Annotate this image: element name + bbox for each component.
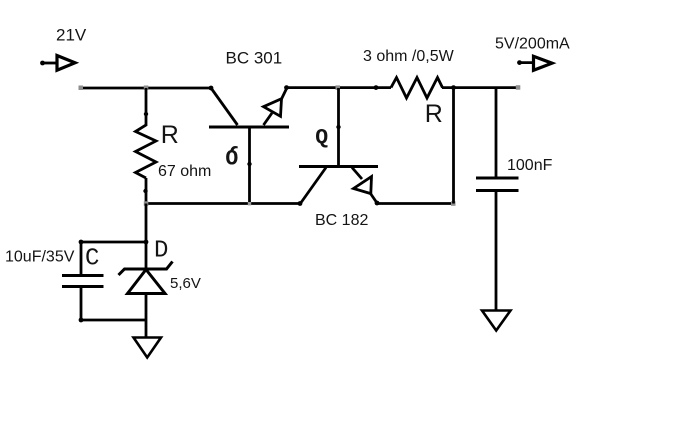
transistor U1 BC301 base wire down xyxy=(248,128,251,204)
transistor Q2 BC182 collector diagonal xyxy=(300,168,326,205)
capacitor C bottom plate xyxy=(62,285,104,288)
svg-text:21V: 21V xyxy=(56,26,87,45)
node dot on Q2 base wire xyxy=(336,125,340,129)
capacitor C upper lead xyxy=(80,242,83,275)
node C top dot xyxy=(79,240,84,245)
transistor U1 BC301 emitter upper segment xyxy=(281,88,287,100)
node Q2 top junction (gray handle) xyxy=(336,85,341,90)
node output end (gray handle) xyxy=(516,85,521,90)
zener D lower lead xyxy=(145,293,148,337)
capacitor 100nF top plate xyxy=(476,177,519,180)
node bottom-left junction (gray handle) xyxy=(144,201,149,206)
capacitor C lower lead xyxy=(80,287,83,320)
svg-text:R: R xyxy=(425,100,443,128)
node dot before resistor xyxy=(374,85,379,90)
svg-text:BC 301: BC 301 xyxy=(226,48,283,67)
wire bottom rail right xyxy=(377,202,454,205)
resistor 3 ohm (horizontal zigzag) xyxy=(391,78,443,99)
wire Q2 base vertical xyxy=(337,88,340,166)
transistor U1 BC301 emitter arrow xyxy=(264,99,282,117)
svg-text:100nF: 100nF xyxy=(507,157,553,174)
node bottom-right corner (gray handle) xyxy=(451,201,456,206)
node C bottom dot xyxy=(79,318,84,323)
svg-text:D: D xyxy=(154,238,168,265)
zener D cathode bar xyxy=(119,262,173,276)
node dot on base wire xyxy=(247,162,251,166)
transistor U1 BC301 emitter lower segment xyxy=(264,113,273,125)
ground right xyxy=(482,311,511,331)
node collector rail end dot xyxy=(209,86,214,91)
transistor U1 BC301 base bar xyxy=(209,126,289,129)
transistor Q2 BC182 emitter upper segment xyxy=(352,168,362,180)
wire output vertical xyxy=(452,88,455,204)
wire zener top vertical xyxy=(145,204,148,270)
wire R bottom xyxy=(145,178,148,204)
node emitter foot dot xyxy=(375,201,380,206)
wire R top xyxy=(145,88,148,126)
wire top rail right xyxy=(442,86,519,89)
node top rail / R junction (gray handle) xyxy=(144,86,149,91)
transistor Q2 BC182 base bar xyxy=(299,165,378,168)
wire top rail left xyxy=(81,87,211,90)
svg-text:BC 182: BC 182 xyxy=(315,212,368,229)
output arrow xyxy=(517,56,552,70)
capacitor 100nF lower lead xyxy=(495,191,498,310)
wire 100nF top lead xyxy=(495,88,498,177)
capacitor C top plate xyxy=(62,274,104,277)
node base-rail junction (gray pixel) xyxy=(248,202,251,205)
wire C top branch xyxy=(81,241,146,244)
zener D triangle xyxy=(128,270,166,294)
svg-text:5V/200mA: 5V/200mA xyxy=(495,35,570,52)
svg-text:C: C xyxy=(85,245,99,272)
capacitor 100nF bottom plate xyxy=(476,189,519,192)
svg-text:Q: Q xyxy=(225,144,238,168)
wire C bottom branch xyxy=(81,319,146,322)
transistor U1 BC301 collector diagonal xyxy=(211,88,238,125)
svg-text:10uF/35V: 10uF/35V xyxy=(5,249,75,266)
ground left xyxy=(134,338,162,358)
svg-text:67 ohm: 67 ohm xyxy=(158,163,211,180)
input arrow xyxy=(40,56,75,71)
svg-text:3 ohm /0,5W: 3 ohm /0,5W xyxy=(363,48,455,65)
node input end (gray handle) xyxy=(79,86,84,91)
node output junction dot xyxy=(451,85,456,90)
resistor R 67 ohm (vertical zigzag) xyxy=(136,125,157,178)
svg-text:Q: Q xyxy=(315,126,328,150)
svg-text:5,6V: 5,6V xyxy=(170,275,201,292)
transistor Q2 BC182 emitter arrow xyxy=(354,177,372,194)
wire top rail middle xyxy=(287,86,391,89)
transistor Q2 BC182 emitter lower segment xyxy=(371,194,378,204)
node emitter top dot xyxy=(284,85,289,90)
node dot on R wire xyxy=(144,112,148,116)
svg-text:R: R xyxy=(161,121,179,149)
node dot below R xyxy=(143,189,147,193)
node D top junction dot xyxy=(144,240,149,245)
node collector foot dot xyxy=(298,201,303,206)
wire bottom rail left xyxy=(146,202,300,205)
